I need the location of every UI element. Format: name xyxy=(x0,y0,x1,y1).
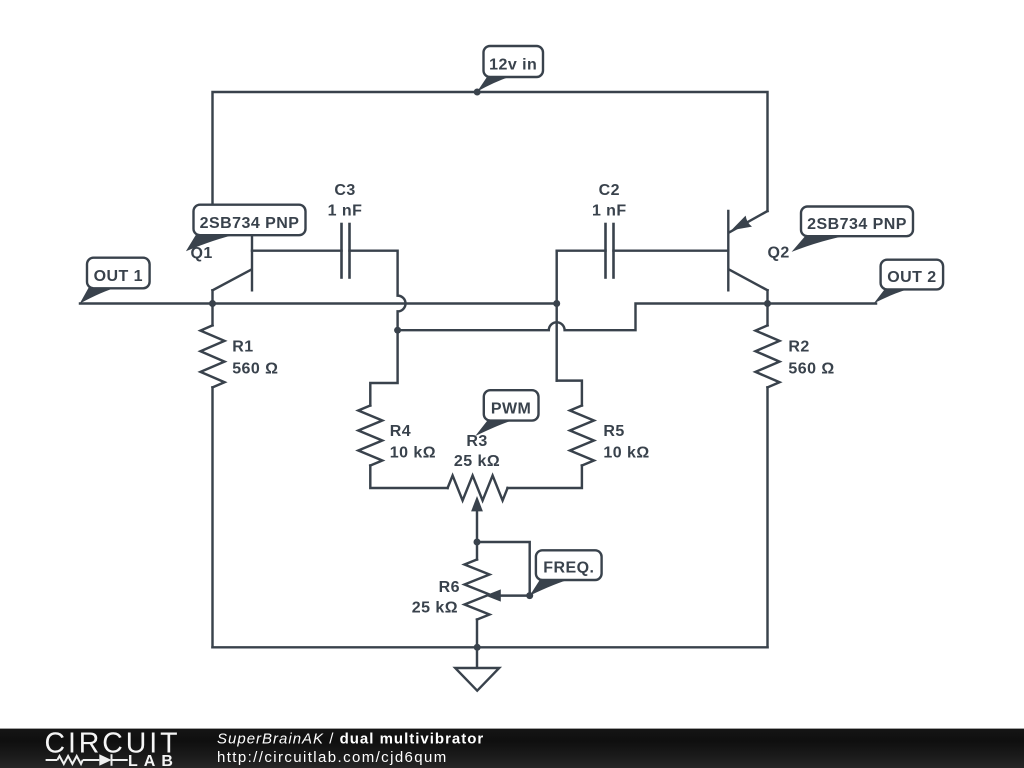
wire C3 right plate to cross node (hops over OUT1 line) xyxy=(350,251,406,331)
node R3 wiper / R6 top xyxy=(474,539,481,546)
wire C2 left plate drop to OUT1 line and down to R5 xyxy=(555,251,557,381)
callout PWM xyxy=(475,390,538,436)
svg-text:SuperBrainAK / dual multivibra: SuperBrainAK / dual multivibrator xyxy=(217,731,484,748)
potentiometer R6 wiper arrow xyxy=(485,589,501,601)
node R6 wiper loop xyxy=(526,592,533,599)
svg-text:LAB: LAB xyxy=(128,753,179,768)
wire Q1 base to C3 xyxy=(252,249,342,251)
potentiometer R6 25k body xyxy=(476,542,478,560)
wire cross-coupling from node A to OUT2 line (hops over C2 drop) xyxy=(398,304,876,331)
resistor R1 560 ohm xyxy=(211,304,213,326)
node node A: C3 / R4 / cross wire xyxy=(394,327,401,334)
node C2 / R5 / OUT1 line xyxy=(553,300,560,307)
capacitor C2 1nF xyxy=(606,224,614,278)
wire C2 right plate to Q2 base xyxy=(614,249,729,251)
potentiometer R3 25k body xyxy=(448,476,508,501)
callout OUT 2 xyxy=(874,260,943,304)
svg-text:OUT 1: OUT 1 xyxy=(94,268,143,285)
footer bar xyxy=(0,729,1024,768)
callout FREQ. xyxy=(530,550,602,595)
transistor Q2 2SB734 PNP xyxy=(727,211,729,290)
resistor R5 10k xyxy=(557,381,582,406)
capacitor C3 1nF xyxy=(342,224,350,278)
resistor R4 10k xyxy=(370,330,397,405)
svg-text:1 nF: 1 nF xyxy=(328,202,363,219)
wire drop node to C2 left plate xyxy=(557,249,606,251)
logo resistor-diode glyph xyxy=(46,754,128,766)
svg-text:R4: R4 xyxy=(390,423,411,440)
svg-text:R3: R3 xyxy=(466,433,487,450)
svg-text:1 nF: 1 nF xyxy=(592,202,627,219)
node 12v tap xyxy=(474,89,481,96)
wire OUT1 horizontal line (left collector rail) xyxy=(80,302,557,304)
node ground tap xyxy=(474,644,481,651)
callout 2SB734 PNP (Q1) xyxy=(186,205,306,252)
svg-text:10 kΩ: 10 kΩ xyxy=(603,445,649,462)
svg-text:R2: R2 xyxy=(788,339,809,356)
wire R6 top-to-wiper rheostat loop xyxy=(477,542,530,596)
svg-text:FREQ.: FREQ. xyxy=(543,560,594,577)
callout 2SB734 PNP (Q2) xyxy=(792,207,913,252)
svg-text:OUT 2: OUT 2 xyxy=(887,269,936,286)
node Q2 collector / R2 / OUT2 xyxy=(764,300,771,307)
wire bottom ground rail xyxy=(213,646,768,648)
svg-text:R5: R5 xyxy=(603,423,624,440)
potentiometer R3 wiper arrow xyxy=(476,512,478,543)
svg-text:PWM: PWM xyxy=(491,400,531,417)
svg-text:560 Ω: 560 Ω xyxy=(232,360,278,377)
transistor Q1 2SB734 PNP (emitter hidden behind callout) xyxy=(251,211,253,290)
svg-text:2SB734 PNP: 2SB734 PNP xyxy=(200,215,300,232)
resistor R2 560 ohm xyxy=(766,304,768,326)
svg-text:25 kΩ: 25 kΩ xyxy=(412,600,458,617)
svg-text:R6: R6 xyxy=(439,579,460,596)
ground symbol xyxy=(476,647,478,668)
svg-text:C2: C2 xyxy=(599,182,620,199)
svg-text:C3: C3 xyxy=(334,182,355,199)
svg-text:10 kΩ: 10 kΩ xyxy=(390,445,436,462)
svg-text:560 Ω: 560 Ω xyxy=(788,360,834,377)
svg-text:12v in: 12v in xyxy=(489,57,537,74)
callout 12v in xyxy=(477,46,543,92)
svg-text:R1: R1 xyxy=(232,339,253,356)
svg-text:http://circuitlab.com/cjd6qum: http://circuitlab.com/cjd6qum xyxy=(217,749,448,766)
svg-text:2SB734 PNP: 2SB734 PNP xyxy=(807,216,907,233)
callout OUT 1 xyxy=(80,258,150,304)
node Q1 collector / R1 / OUT1 xyxy=(209,300,216,307)
wire 12V top rail with side drops xyxy=(213,92,768,211)
svg-text:25 kΩ: 25 kΩ xyxy=(454,453,500,470)
svg-text:Q2: Q2 xyxy=(768,245,790,262)
